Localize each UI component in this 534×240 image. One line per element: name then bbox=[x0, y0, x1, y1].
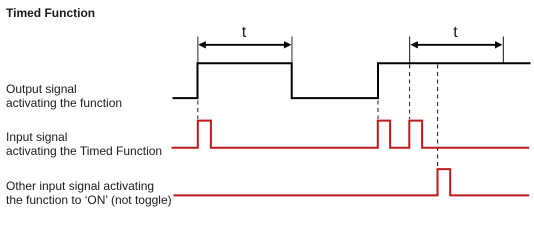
svg-text:Input signal: Input signal bbox=[6, 130, 67, 144]
svg-text:Timed Function: Timed Function bbox=[6, 6, 95, 20]
svg-text:activating the function: activating the function bbox=[6, 96, 122, 110]
svg-text:Other input signal activating: Other input signal activating bbox=[6, 179, 154, 193]
svg-text:Output signal: Output signal bbox=[6, 82, 77, 96]
svg-text:t: t bbox=[453, 24, 458, 41]
svg-text:the function to ‘ON’ (not togg: the function to ‘ON’ (not toggle) bbox=[6, 193, 172, 207]
svg-text:t: t bbox=[242, 24, 247, 41]
svg-text:activating the Timed Function: activating the Timed Function bbox=[6, 144, 162, 158]
